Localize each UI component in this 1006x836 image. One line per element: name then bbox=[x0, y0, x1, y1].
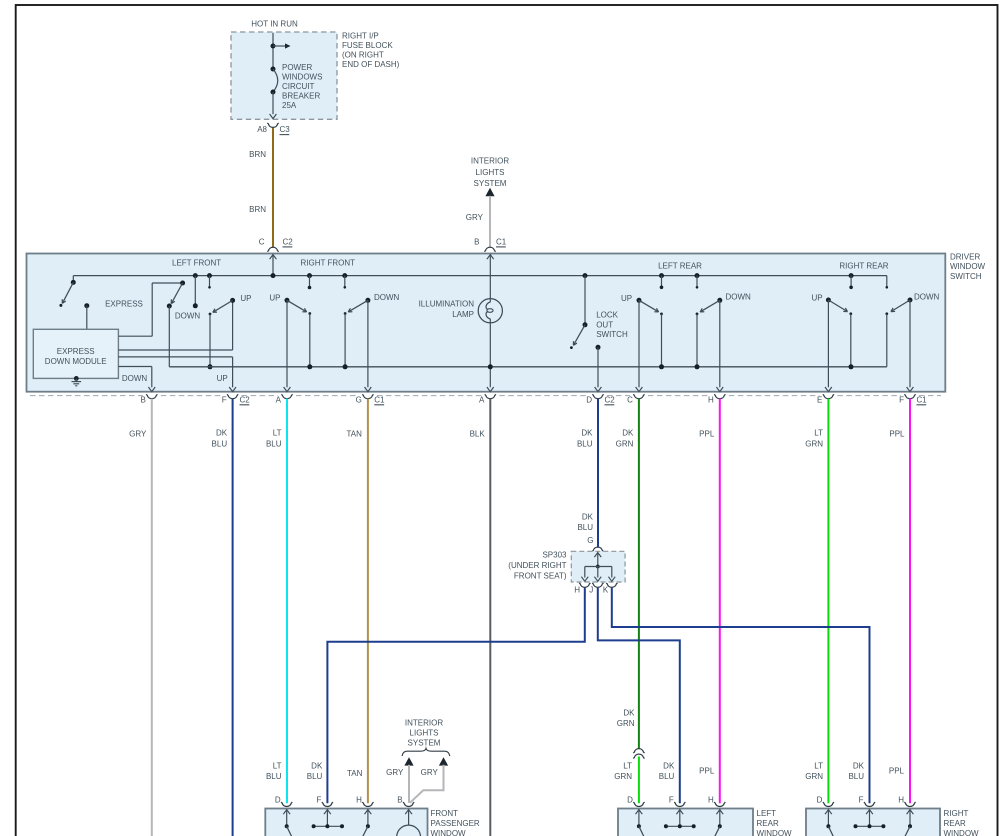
switch fragment H bbox=[908, 824, 912, 828]
svg-text:LT: LT bbox=[273, 429, 282, 438]
svg-text:INTERIOR: INTERIOR bbox=[405, 718, 443, 727]
wire contact to express down module bbox=[86, 306, 88, 330]
svg-text:A: A bbox=[479, 395, 485, 404]
wire DK BLU from pin F bbox=[232, 399, 234, 836]
svg-text:H: H bbox=[708, 796, 714, 805]
splice branch J bbox=[597, 567, 599, 578]
svg-text:GRN: GRN bbox=[617, 719, 635, 728]
left front down pivot wire bbox=[168, 306, 170, 367]
left front bus stub 1 bbox=[193, 273, 198, 278]
connector C2 arch bbox=[267, 247, 278, 251]
svg-text:GRN: GRN bbox=[805, 440, 823, 449]
svg-text:B: B bbox=[140, 395, 145, 404]
svg-text:UP: UP bbox=[240, 294, 251, 303]
left rear up switch arm bbox=[639, 300, 659, 312]
switch fragment F bbox=[314, 825, 342, 827]
entry arrows left rear bbox=[636, 810, 643, 815]
module wire 1 to left front down contact bbox=[118, 335, 152, 337]
switch fragment D bbox=[637, 824, 641, 828]
arrow to interior lights system bbox=[485, 188, 494, 196]
svg-text:C2: C2 bbox=[283, 237, 294, 246]
right front bus stub 2 bbox=[342, 273, 347, 278]
svg-text:25A: 25A bbox=[282, 101, 297, 110]
svg-text:DK: DK bbox=[853, 761, 865, 770]
svg-text:UP: UP bbox=[217, 374, 228, 383]
module wire 3 to F exit bbox=[118, 356, 232, 358]
svg-text:END OF DASH): END OF DASH) bbox=[342, 60, 400, 69]
svg-text:BLU: BLU bbox=[848, 772, 864, 781]
svg-text:GRN: GRN bbox=[805, 772, 823, 781]
wire LT BLU from pin A bbox=[286, 399, 288, 804]
svg-text:BLU: BLU bbox=[577, 440, 593, 449]
dashed connector line under driver window switch bbox=[30, 395, 143, 397]
svg-text:F: F bbox=[899, 395, 904, 404]
svg-text:BLK: BLK bbox=[470, 430, 486, 439]
svg-text:DK: DK bbox=[623, 709, 635, 718]
junction dot bbox=[695, 364, 700, 369]
wire DK BLU splice K to right rear switch bbox=[612, 588, 870, 803]
svg-text:(ON RIGHT: (ON RIGHT bbox=[342, 51, 384, 60]
svg-text:REAR: REAR bbox=[944, 819, 966, 828]
express switch contact dot bbox=[84, 303, 89, 308]
wire GRY left to pin B bbox=[408, 765, 410, 803]
left rear down pivot wire bbox=[696, 314, 698, 367]
wire GRY to interior lights bbox=[489, 196, 491, 247]
svg-text:PPL: PPL bbox=[699, 767, 715, 776]
svg-text:DOWN MODULE: DOWN MODULE bbox=[45, 357, 107, 366]
svg-text:SYSTEM: SYSTEM bbox=[474, 179, 507, 188]
svg-text:(UNDER RIGHT: (UNDER RIGHT bbox=[508, 561, 566, 570]
svg-text:C: C bbox=[627, 395, 633, 404]
breaker terminal dot lower bbox=[271, 90, 276, 95]
svg-text:UP: UP bbox=[621, 294, 632, 303]
left front down switch arm bbox=[171, 283, 182, 304]
svg-text:RIGHT I/P: RIGHT I/P bbox=[342, 32, 379, 41]
arrow A(BLK) exit bbox=[487, 387, 494, 392]
wire left rear down to H exit bbox=[719, 300, 721, 387]
svg-text:FRONT: FRONT bbox=[431, 809, 459, 818]
wire BRN from breaker to driver window switch bbox=[272, 128, 274, 247]
svg-text:BRN: BRN bbox=[249, 205, 266, 214]
svg-text:ILLUMINATION: ILLUMINATION bbox=[419, 300, 475, 309]
switch fragment F bbox=[666, 825, 694, 827]
right rear up pivot wire bbox=[850, 314, 852, 367]
right front bus stub 1 bbox=[307, 273, 312, 278]
right rear up pivot dot bbox=[849, 312, 852, 315]
entry arrow from C2 feed bbox=[270, 255, 277, 260]
wire left rear up to C exit bbox=[638, 300, 640, 387]
arrow B exit bbox=[148, 387, 155, 392]
svg-text:H: H bbox=[574, 586, 580, 595]
svg-text:DRIVER: DRIVER bbox=[950, 253, 980, 262]
svg-text:DOWN: DOWN bbox=[726, 293, 752, 302]
svg-text:D: D bbox=[275, 796, 281, 805]
left rear down pivot dot bbox=[696, 313, 699, 316]
svg-text:D: D bbox=[586, 395, 592, 404]
svg-text:DK: DK bbox=[622, 429, 634, 438]
svg-text:DK: DK bbox=[581, 429, 593, 438]
svg-text:DOWN: DOWN bbox=[122, 374, 148, 383]
svg-text:WINDOWS: WINDOWS bbox=[282, 73, 322, 82]
splice junction dot bbox=[596, 565, 600, 569]
svg-text:F: F bbox=[317, 796, 322, 805]
svg-text:RIGHT: RIGHT bbox=[944, 809, 969, 818]
express switch pivot dot bbox=[71, 280, 76, 285]
splice branch K bbox=[611, 567, 613, 578]
svg-text:D: D bbox=[627, 796, 633, 805]
wire from breaker to connector bbox=[272, 92, 274, 114]
tap arrow right bbox=[273, 45, 286, 47]
switch fragment H bbox=[718, 824, 722, 828]
connector cups front passenger pins bbox=[281, 802, 292, 806]
svg-text:PPL: PPL bbox=[889, 430, 905, 439]
switch fragment D bbox=[826, 824, 830, 828]
arrow out bottom of fuse block bbox=[270, 114, 277, 119]
svg-text:BREAKER: BREAKER bbox=[282, 92, 320, 101]
svg-text:LIGHTS: LIGHTS bbox=[476, 168, 505, 177]
svg-text:LEFT REAR: LEFT REAR bbox=[658, 262, 702, 271]
svg-text:WINDOW: WINDOW bbox=[757, 829, 793, 836]
svg-text:PPL: PPL bbox=[699, 430, 715, 439]
connector cups left rear pins bbox=[633, 802, 644, 806]
entry arrows right rear bbox=[825, 810, 832, 815]
svg-text:SWITCH: SWITCH bbox=[950, 272, 982, 281]
splice branch H bbox=[584, 567, 586, 578]
lockout pivot dot bbox=[583, 322, 588, 327]
wire DK GRN from pin C bbox=[638, 399, 640, 749]
arrow F exit bbox=[229, 387, 236, 392]
svg-text:UP: UP bbox=[811, 294, 822, 303]
svg-text:C1: C1 bbox=[374, 395, 385, 404]
svg-text:C1: C1 bbox=[496, 237, 507, 246]
left rear up pivot dot bbox=[660, 313, 663, 316]
svg-text:H: H bbox=[708, 395, 714, 404]
ground symbol bbox=[74, 376, 79, 381]
express switch arm bbox=[62, 282, 73, 303]
svg-text:RIGHT FRONT: RIGHT FRONT bbox=[301, 259, 356, 268]
svg-text:DK: DK bbox=[216, 429, 228, 438]
supply bus bbox=[73, 275, 887, 277]
switch fragment H bbox=[366, 824, 370, 828]
switch fragment F bbox=[856, 825, 884, 827]
svg-text:POWER: POWER bbox=[282, 63, 312, 72]
right front down contact dot bbox=[365, 298, 370, 303]
wire BLK from pin A bbox=[489, 399, 491, 836]
entry arrows front passenger bbox=[283, 810, 290, 815]
wire DK BLU splice J to left rear switch bbox=[598, 588, 680, 803]
svg-text:LT: LT bbox=[814, 429, 823, 438]
svg-text:C: C bbox=[259, 237, 265, 246]
wire lockout contact to D exit bbox=[597, 347, 599, 387]
splice cups H J K bbox=[579, 583, 590, 587]
arrow F(C1) exit bbox=[907, 387, 914, 392]
express down module box bbox=[33, 329, 118, 378]
wire GRY from pin B bbox=[151, 399, 153, 836]
arrow interior lights right bbox=[439, 757, 448, 765]
left front up pivot dot bbox=[209, 313, 212, 316]
svg-text:GRY: GRY bbox=[129, 430, 147, 439]
svg-text:H: H bbox=[356, 796, 362, 805]
circuit breaker arc bbox=[273, 69, 278, 92]
svg-text:SWITCH: SWITCH bbox=[596, 330, 628, 339]
junction dot bbox=[343, 364, 348, 369]
svg-text:BLU: BLU bbox=[212, 440, 228, 449]
right front up switch arm bbox=[287, 300, 307, 312]
svg-text:F: F bbox=[859, 796, 864, 805]
right front down pivot dot bbox=[344, 312, 347, 315]
connector cups at driver window switch pins bbox=[146, 394, 157, 398]
bracket to interior lights system bbox=[402, 748, 450, 756]
svg-text:PASSENGER: PASSENGER bbox=[431, 819, 480, 828]
module wire 4 to B exit bbox=[118, 366, 151, 368]
svg-text:C2: C2 bbox=[240, 395, 251, 404]
svg-text:WINDOW: WINDOW bbox=[944, 829, 980, 836]
svg-text:UP: UP bbox=[269, 294, 280, 303]
svg-text:E: E bbox=[817, 395, 822, 404]
left rear up pivot wire bbox=[661, 314, 663, 367]
svg-text:LEFT FRONT: LEFT FRONT bbox=[172, 259, 221, 268]
svg-text:WINDOW: WINDOW bbox=[431, 829, 467, 836]
svg-text:BRN: BRN bbox=[249, 150, 266, 159]
entry arrow to C1 interior lights bbox=[487, 255, 494, 260]
svg-text:J: J bbox=[589, 586, 593, 595]
svg-text:F: F bbox=[222, 395, 227, 404]
right front up pivot wire bbox=[309, 314, 311, 367]
svg-text:C2: C2 bbox=[605, 395, 616, 404]
svg-text:GRN: GRN bbox=[616, 440, 634, 449]
svg-text:DK: DK bbox=[663, 761, 675, 770]
switch fragment D bbox=[285, 824, 289, 828]
left front up switch arm bbox=[213, 300, 233, 312]
svg-text:PPL: PPL bbox=[889, 767, 905, 776]
svg-text:EXPRESS: EXPRESS bbox=[57, 347, 95, 356]
driver window switch box bbox=[27, 254, 946, 392]
wire GRY right jog to pin B bbox=[410, 765, 444, 803]
illumination lamp feed wire bbox=[489, 255, 491, 303]
right rear down pivot dot bbox=[885, 312, 888, 315]
svg-text:DOWN: DOWN bbox=[374, 293, 400, 302]
svg-text:HOT IN RUN: HOT IN RUN bbox=[251, 20, 298, 29]
right rear down contact dot bbox=[908, 298, 913, 303]
right front down pivot wire bbox=[344, 314, 346, 367]
right rear bus end stub bbox=[886, 276, 888, 287]
svg-text:BLU: BLU bbox=[307, 772, 323, 781]
wire feed into fuse block bbox=[272, 33, 274, 69]
wire PPL from pin F bbox=[909, 399, 911, 804]
right rear bus stub 1 bbox=[849, 273, 854, 278]
svg-text:G: G bbox=[587, 536, 593, 545]
svg-text:LAMP: LAMP bbox=[452, 310, 474, 319]
inline connector on green wire bbox=[633, 749, 644, 753]
right rear down pivot wire bbox=[886, 314, 888, 367]
left rear down switch arm bbox=[700, 300, 720, 312]
svg-text:LOCK: LOCK bbox=[596, 311, 618, 320]
svg-text:DK: DK bbox=[311, 761, 323, 770]
junction dot bbox=[307, 364, 312, 369]
wire right rear down to F exit bbox=[909, 300, 911, 387]
right rear up switch arm bbox=[828, 300, 847, 312]
svg-text:D: D bbox=[817, 796, 823, 805]
svg-text:LT: LT bbox=[273, 761, 282, 770]
connector C1 arch bbox=[484, 247, 495, 251]
left front bus stub 2 bbox=[207, 273, 212, 278]
svg-text:WINDOW: WINDOW bbox=[950, 262, 986, 271]
wire right front down to G exit bbox=[367, 300, 369, 387]
left rear bus stub 1 bbox=[659, 273, 664, 278]
express switch feed stub bbox=[72, 276, 74, 283]
svg-text:F: F bbox=[669, 796, 674, 805]
left front up pivot wire bbox=[209, 314, 211, 367]
svg-text:EXPRESS: EXPRESS bbox=[105, 300, 143, 309]
splice SP303 box (dashed) bbox=[571, 551, 625, 582]
lockout arm end dot bbox=[570, 346, 573, 349]
module wire 2 to left front up contact bbox=[118, 349, 232, 351]
wire LT GRN from pin E bbox=[827, 399, 829, 804]
lockout contact dot bbox=[596, 345, 601, 350]
svg-text:B: B bbox=[397, 796, 402, 805]
illumination lamp bbox=[478, 299, 502, 323]
connector cups right rear pins bbox=[823, 802, 834, 806]
left front up switch contact dot bbox=[230, 298, 235, 303]
right front down switch arm bbox=[348, 300, 368, 312]
right front up contact dot bbox=[285, 298, 290, 303]
svg-text:BLU: BLU bbox=[659, 772, 675, 781]
svg-text:BLU: BLU bbox=[266, 772, 282, 781]
junction dot bbox=[659, 364, 664, 369]
svg-text:LT: LT bbox=[623, 761, 632, 770]
connector arch at splice G bbox=[592, 547, 603, 551]
svg-text:DOWN: DOWN bbox=[914, 293, 940, 302]
front passenger lamp bbox=[397, 825, 421, 836]
right front up pivot dot bbox=[308, 312, 311, 315]
wire right rear up to E exit bbox=[827, 300, 829, 387]
svg-text:CIRCUIT: CIRCUIT bbox=[282, 82, 315, 91]
splice entry arrow bbox=[594, 553, 601, 558]
arrow C exit bbox=[636, 387, 643, 392]
svg-text:INTERIOR: INTERIOR bbox=[471, 157, 509, 166]
svg-text:SYSTEM: SYSTEM bbox=[408, 739, 441, 748]
breaker terminal dot upper bbox=[271, 67, 276, 72]
svg-text:GRY: GRY bbox=[386, 768, 404, 777]
svg-text:C3: C3 bbox=[280, 125, 291, 134]
ground return bus bbox=[169, 366, 887, 368]
svg-text:GRY: GRY bbox=[421, 768, 439, 777]
splice bar bbox=[585, 566, 612, 568]
svg-text:C1: C1 bbox=[917, 395, 928, 404]
svg-text:LIGHTS: LIGHTS bbox=[410, 728, 439, 737]
left front down pivot dot bbox=[167, 304, 172, 309]
wire TAN from pin G bbox=[367, 399, 369, 804]
wire LT GRN to left rear switch bbox=[638, 757, 640, 804]
lockout feed dot on bus bbox=[583, 273, 588, 278]
junction dot bbox=[208, 364, 213, 369]
svg-text:B: B bbox=[474, 237, 479, 246]
svg-text:OUT: OUT bbox=[596, 320, 613, 329]
arrow G exit bbox=[365, 387, 372, 392]
svg-text:GRN: GRN bbox=[614, 772, 632, 781]
left rear down contact dot bbox=[717, 298, 722, 303]
lockout switch arm bbox=[573, 325, 585, 346]
svg-text:SP303: SP303 bbox=[542, 551, 567, 560]
arrow E exit bbox=[825, 387, 832, 392]
svg-text:TAN: TAN bbox=[347, 769, 363, 778]
left rear up contact dot bbox=[637, 298, 642, 303]
front passenger window switch box bbox=[265, 809, 427, 836]
svg-text:TAN: TAN bbox=[346, 430, 362, 439]
lamp ground wire to A exit bbox=[489, 319, 491, 388]
junction dot lamp-ground bus bbox=[488, 364, 493, 369]
svg-text:G: G bbox=[356, 395, 362, 404]
arrow H exit bbox=[716, 387, 723, 392]
wire PPL from pin H bbox=[719, 399, 721, 804]
wire DK BLU from pin D to splice SP303 bbox=[597, 399, 599, 547]
svg-text:DK: DK bbox=[582, 513, 594, 522]
svg-text:BLU: BLU bbox=[577, 523, 593, 532]
junction dot bbox=[849, 364, 854, 369]
arrow D exit bbox=[595, 387, 602, 392]
svg-text:FRONT SEAT): FRONT SEAT) bbox=[514, 571, 567, 580]
left rear bus stub 2 bbox=[695, 273, 700, 278]
svg-text:LEFT: LEFT bbox=[757, 809, 777, 818]
wire right front up to A exit bbox=[286, 300, 288, 387]
right rear window switch box bbox=[806, 809, 940, 836]
svg-text:K: K bbox=[603, 586, 609, 595]
left front down switch contact dot bbox=[180, 281, 185, 286]
svg-text:DOWN: DOWN bbox=[175, 312, 201, 321]
svg-text:RIGHT REAR: RIGHT REAR bbox=[839, 262, 888, 271]
svg-text:LT: LT bbox=[814, 761, 823, 770]
svg-text:GRY: GRY bbox=[466, 213, 484, 222]
arrow interior lights left bbox=[404, 757, 413, 765]
svg-text:A: A bbox=[276, 395, 282, 404]
junction dot bbox=[271, 44, 276, 49]
left rear window switch box bbox=[618, 809, 753, 836]
right rear down switch arm bbox=[891, 300, 910, 312]
svg-text:A8: A8 bbox=[257, 125, 267, 134]
right rear up contact dot bbox=[826, 298, 831, 303]
lockout feed wire bbox=[584, 276, 586, 325]
bus junction dot at BRN feed bbox=[271, 273, 276, 278]
express switch arm end dot bbox=[59, 304, 62, 307]
svg-text:H: H bbox=[898, 796, 904, 805]
arrow A exit bbox=[284, 387, 291, 392]
svg-text:BLU: BLU bbox=[266, 440, 282, 449]
fuse block box (dashed) bbox=[231, 32, 337, 119]
wire DK BLU splice H to front passenger switch bbox=[327, 588, 584, 803]
svg-text:FUSE BLOCK: FUSE BLOCK bbox=[342, 41, 393, 50]
wire entry stem to bus bbox=[272, 255, 274, 276]
svg-text:REAR: REAR bbox=[757, 819, 779, 828]
connector C3 cup bbox=[267, 123, 278, 127]
